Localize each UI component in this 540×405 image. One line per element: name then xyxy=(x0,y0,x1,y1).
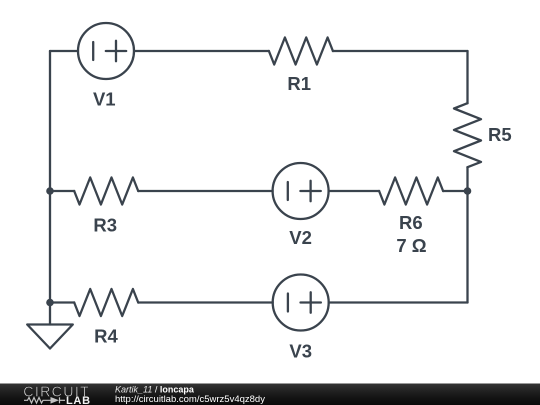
voltage source V2 xyxy=(273,163,329,219)
voltage source V1 xyxy=(78,23,134,79)
svg-text:http://circuitlab.com/c5wrz5v4: http://circuitlab.com/c5wrz5v4qz8dy xyxy=(115,394,265,405)
wire: ground stub xyxy=(49,303,51,325)
logo CircuitLab xyxy=(23,385,90,405)
wire: bottom row, left node to R4 xyxy=(50,301,74,303)
wire: middle row, left node to R3 xyxy=(50,190,74,192)
node junction: right-middle xyxy=(464,187,472,195)
wire: V2 to R6 xyxy=(329,190,380,192)
svg-text:7 Ω: 7 Ω xyxy=(396,235,426,256)
resistor R3 xyxy=(74,178,138,205)
svg-text:V1: V1 xyxy=(93,89,116,110)
wire: right rail lower, node to bottom-right corner xyxy=(466,191,468,303)
wire: V1 to R1 xyxy=(134,50,269,52)
svg-text:R5: R5 xyxy=(488,124,512,145)
footer bar xyxy=(0,384,540,405)
svg-text:R3: R3 xyxy=(93,214,117,235)
node junction: left-middle xyxy=(46,187,54,195)
svg-text:R6: R6 xyxy=(399,212,423,233)
svg-text:R1: R1 xyxy=(287,73,311,94)
ground xyxy=(27,325,73,349)
svg-text:R4: R4 xyxy=(94,326,118,347)
wire: R6 to middle-right node xyxy=(443,190,467,192)
wire: top row, left rail to V1 xyxy=(50,50,78,52)
wire: right rail upper, corner to R5 xyxy=(466,51,468,103)
svg-text:V3: V3 xyxy=(289,341,312,362)
resistor R4 xyxy=(74,289,138,316)
svg-text:Kartik_11 / loncapa: Kartik_11 / loncapa xyxy=(115,385,195,395)
svg-text:V2: V2 xyxy=(289,227,312,248)
wire: R3 to V2 xyxy=(138,190,272,192)
resistor R5 xyxy=(454,103,481,167)
svg-text:LAB: LAB xyxy=(66,395,91,405)
wire: R4 to V3 xyxy=(138,301,273,303)
wire: left rail xyxy=(49,51,51,303)
footer text: author / title xyxy=(115,385,265,405)
voltage source V3 xyxy=(273,275,329,331)
wire: V3 to bottom-right corner xyxy=(329,301,468,303)
wire: R5 to middle-right node xyxy=(466,167,468,191)
node junction: left-bottom xyxy=(46,299,54,307)
resistor R6 xyxy=(379,178,443,205)
resistor R1 xyxy=(269,38,333,65)
wire: R1 to top-right corner xyxy=(333,50,468,52)
